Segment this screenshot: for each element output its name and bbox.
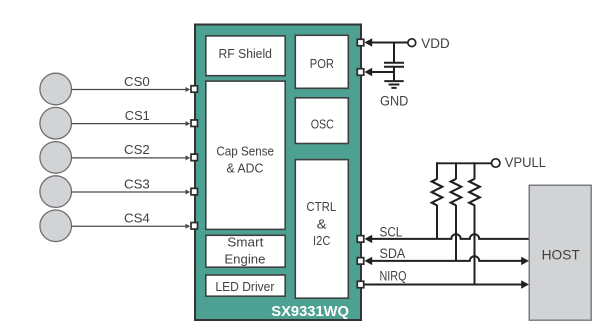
svg-text:VDD: VDD <box>421 35 449 51</box>
svg-text:I2C: I2C <box>313 233 330 248</box>
svg-text:OSC: OSC <box>311 116 334 131</box>
sensor pad CS4 <box>40 210 72 242</box>
wire NIRQ <box>365 280 529 288</box>
svg-text:CS4: CS4 <box>124 211 150 226</box>
terminal VDD <box>408 39 416 47</box>
svg-text:Smart: Smart <box>227 234 264 249</box>
wire GND pin <box>365 68 395 76</box>
block Cap Sense & ADC <box>206 81 285 229</box>
block RF Shield <box>206 36 285 76</box>
svg-text:POR: POR <box>310 56 334 71</box>
svg-text:GND: GND <box>380 93 409 108</box>
wire VPULL bus <box>436 162 491 164</box>
svg-text:NIRQ: NIRQ <box>380 269 407 284</box>
block CTRL & I2C <box>295 160 348 299</box>
svg-text:RF Shield: RF Shield <box>218 46 272 61</box>
wire CS1 <box>72 121 191 126</box>
wire capacitor to ground <box>393 67 395 81</box>
svg-text:SDA: SDA <box>380 246 406 261</box>
wire SDA <box>365 256 529 265</box>
svg-text:CS1: CS1 <box>125 108 150 123</box>
chip U1 SX9331WQ body <box>195 25 361 321</box>
wire CS3 <box>72 190 191 195</box>
pin CS0 <box>191 86 198 93</box>
sensor pad CS2 <box>40 142 72 174</box>
pin CS1 <box>191 120 198 127</box>
resistor R2 <box>451 162 462 261</box>
wire CS4 <box>72 224 191 229</box>
resistor R1 <box>432 162 443 239</box>
ground <box>384 81 403 88</box>
wire CS2 <box>72 155 191 160</box>
wire VDD to capacitor <box>393 43 395 63</box>
resistor R3 <box>469 162 480 284</box>
svg-text:SCL: SCL <box>380 224 403 239</box>
svg-text:HOST: HOST <box>542 246 581 262</box>
block POR <box>295 35 348 88</box>
pin SDA <box>357 258 364 265</box>
svg-text:Engine: Engine <box>224 251 265 266</box>
wire CS0 <box>72 87 191 92</box>
wire SCL <box>365 234 530 243</box>
block OSC <box>295 98 348 144</box>
block HOST <box>529 185 591 320</box>
terminal VPULL <box>492 159 500 167</box>
wire VDD <box>365 38 409 46</box>
pin CS4 <box>191 223 198 230</box>
pin CS2 <box>191 154 198 161</box>
svg-text:VPULL: VPULL <box>505 155 547 170</box>
svg-text:SX9331WQ: SX9331WQ <box>271 304 349 320</box>
pin CS3 <box>191 188 198 195</box>
svg-text:&: & <box>317 217 327 232</box>
svg-text:CTRL: CTRL <box>306 199 336 214</box>
svg-text:& ADC: & ADC <box>227 161 264 176</box>
capacitor C1 <box>384 63 404 67</box>
sensor pad CS1 <box>40 107 72 139</box>
svg-text:CS3: CS3 <box>124 176 150 191</box>
svg-text:LED Driver: LED Driver <box>215 279 275 294</box>
block LED Driver <box>206 275 285 296</box>
sensor pad CS0 <box>40 73 72 105</box>
block Smart Engine <box>206 234 285 267</box>
svg-text:Cap Sense: Cap Sense <box>216 143 274 158</box>
svg-text:CS0: CS0 <box>124 74 150 89</box>
pin VDD <box>357 39 364 46</box>
pin NIRQ <box>357 281 364 288</box>
svg-text:CS2: CS2 <box>124 142 150 157</box>
sensor pad CS3 <box>40 176 72 208</box>
pin GND <box>357 69 364 76</box>
pin SCL <box>357 236 364 243</box>
